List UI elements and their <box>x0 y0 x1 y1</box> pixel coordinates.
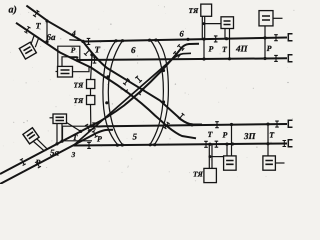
node L2 x232 <box>231 142 234 145</box>
node L1 x231 <box>230 123 233 126</box>
wire B2 right to DAl <box>73 67 90 72</box>
wire B2 left stub <box>56 71 58 73</box>
node DAu wire <box>90 53 93 56</box>
node L1/R5u switch <box>89 124 92 127</box>
svg-text:Р: Р <box>223 131 228 140</box>
wire B10 to B11 <box>212 156 224 158</box>
crossover rail UBu from L1 junction up to blade near U1 <box>91 44 199 126</box>
wire x204 U1 to U2 <box>203 39 205 59</box>
joint on rail D1 <box>33 10 39 17</box>
svg-text:5: 5 <box>133 132 138 142</box>
rail D2 lower rail of track 6a, continues as crossover rail DAl to lower track <box>16 23 196 139</box>
rail U2 end bracket <box>288 55 292 62</box>
svg-text:3П: 3П <box>243 131 257 141</box>
node curve merge TL <box>106 75 109 78</box>
svg-text:5а: 5а <box>50 148 60 158</box>
svg-text:3: 3 <box>71 150 76 159</box>
joint on DAl at L1 frog <box>163 122 169 129</box>
rail D1 upper rail of track 6a <box>26 6 83 42</box>
svg-text:6а: 6а <box>47 32 57 42</box>
wires B6 to rails <box>225 29 230 59</box>
joint near crossing NW <box>123 78 130 85</box>
joint on rail R5u <box>20 159 26 166</box>
joint on L1 left <box>92 123 96 129</box>
svg-text:Р: Р <box>71 46 76 55</box>
node L2 curve1 <box>116 144 119 147</box>
transformer box B2 <box>58 66 73 77</box>
node U1 curve2 <box>121 39 124 42</box>
choke box B5 (TYa top) <box>201 4 212 16</box>
node U1 curve3 <box>148 39 151 42</box>
joint on rail R5l <box>35 161 41 168</box>
wires B3/B4 chain <box>91 55 93 125</box>
insulated joint ticks <box>20 10 286 168</box>
node wire joint bottom <box>209 155 212 158</box>
svg-text:4: 4 <box>71 29 76 38</box>
svg-text:ТЯ: ТЯ <box>193 170 204 179</box>
joint on UBu near blade <box>177 44 184 51</box>
joint on U1 mid <box>214 36 218 42</box>
wires B8 to R5u <box>34 139 48 151</box>
svg-text:Т: Т <box>95 45 101 55</box>
joint on L2 mid <box>204 141 208 147</box>
node U1 curve4 <box>154 39 157 42</box>
joint on UBl near U2 <box>173 51 180 58</box>
rail U2 bottom rail of upper track <box>77 58 287 60</box>
svg-text:Р: Р <box>36 158 41 167</box>
joint near crossing NE <box>135 76 142 83</box>
node L2 x268 <box>266 142 269 145</box>
joint on U2 right <box>274 55 278 61</box>
wire loop outer (P) <box>58 46 80 66</box>
node U1 x188 <box>186 38 189 41</box>
joint on L2 right <box>283 141 287 147</box>
rail L1 end bracket <box>288 120 292 127</box>
node L1 x268 <box>266 123 269 126</box>
wire B12 right stub <box>275 162 284 164</box>
svg-text:Р: Р <box>209 45 214 54</box>
node L1 x192 <box>190 123 193 126</box>
joint on U2 left <box>93 57 97 63</box>
rail L1 top rail of lower track <box>91 124 287 126</box>
node L2 x227 <box>225 143 228 146</box>
node L2 curve3 <box>149 143 152 146</box>
closure curve right inner <box>155 39 169 145</box>
rail U1 top rail of upper track <box>83 38 287 42</box>
switch blade above U2 left end <box>70 56 79 58</box>
node U1 x226 <box>225 37 228 40</box>
equipment boxes and wires <box>19 4 284 182</box>
node curve merge BL <box>105 101 108 104</box>
node L2 curve2 <box>121 143 124 146</box>
rail R5u upper rail of track 5a, continues into L1 <box>0 126 91 174</box>
rail R5l lower rail of track 5a, ends with bent blade under L1 <box>0 130 113 184</box>
wire B7 right stub <box>273 17 283 19</box>
svg-text:ТЯ: ТЯ <box>74 96 85 105</box>
joint on U1 near switch <box>87 38 91 44</box>
joint on DAu lower <box>178 113 185 120</box>
joint on rail D2 <box>24 26 30 33</box>
node U1 x265 <box>263 36 266 39</box>
wire loop around T label <box>63 126 93 141</box>
crossover rail DAu from U1 junction down to L1 <box>83 42 202 125</box>
choke box B3 (TYa) <box>87 80 95 89</box>
transformer box B8 (5a feed) <box>23 128 39 144</box>
svg-text:ТЯ: ТЯ <box>189 6 200 15</box>
node R5u wire1 <box>55 142 58 145</box>
closure curve right outer (U1 to L2) <box>150 39 164 145</box>
switch blade above U1 left end <box>69 39 80 42</box>
svg-text:а): а) <box>9 5 17 16</box>
joint on L1 right <box>275 121 279 127</box>
wire B7 to rails <box>264 26 266 59</box>
joint on crossover DAu upper <box>84 49 91 56</box>
node R5u wire3 <box>79 130 82 133</box>
joint near crossing SW <box>125 90 132 97</box>
node D1 connector <box>45 19 48 22</box>
node curve merge TR <box>162 69 165 72</box>
wire B12 to rails <box>267 124 269 156</box>
transformer box B6 <box>221 17 234 29</box>
node U1 curve1 <box>114 39 117 42</box>
joint on L2 left <box>87 142 91 148</box>
joint on R5l before blade <box>92 131 98 138</box>
joint on R5u near L1 <box>85 124 91 131</box>
wires B11 to rails <box>227 125 232 156</box>
wire connector D1-D2 <box>46 21 48 42</box>
svg-text:ТЯ: ТЯ <box>74 81 85 90</box>
label a) <box>9 5 17 16</box>
crossover rail UBl from L2 frog up crossing U2, blade above U2 <box>74 53 192 145</box>
node D2 connector <box>45 40 48 43</box>
rail L2 bottom rail of lower track <box>74 144 288 146</box>
joint on L1 mid <box>215 122 219 128</box>
wires B9 to R5u <box>57 124 62 144</box>
choke box B10 (TYa bottom) <box>204 168 217 182</box>
node L2 curve4 <box>153 143 156 146</box>
node U2 frog <box>76 59 79 62</box>
node U1 x204 <box>202 38 205 41</box>
joint on U1 right <box>274 35 278 41</box>
node U2 x229 <box>228 57 231 60</box>
svg-text:Р: Р <box>267 44 272 53</box>
wires B5 to U1 <box>202 16 204 39</box>
node U2 x265 <box>263 57 266 60</box>
transformer box B12 <box>263 156 276 170</box>
wire loop inner <box>62 57 77 67</box>
svg-text:4П: 4П <box>235 44 249 54</box>
node R5u wire2 <box>60 140 63 143</box>
joint near crossing SE <box>138 88 145 95</box>
node wire joint top <box>203 22 206 25</box>
node U1/D1 switch <box>81 40 84 43</box>
rail L2 end bracket <box>288 140 292 147</box>
wire B9 left stub <box>50 117 54 119</box>
wires B10 to L2 <box>209 144 212 168</box>
wire B5 to B6 <box>205 23 221 25</box>
transformer box B7 <box>259 11 273 26</box>
closure curve left outer (U1 to L2) <box>103 41 118 145</box>
joint on L2 x216 <box>215 141 219 147</box>
node U2 x204 <box>202 57 205 60</box>
choke box B4 (TYa) <box>87 96 95 105</box>
transformer box B9 <box>53 114 67 124</box>
closure curve left inner <box>108 41 122 145</box>
node L2 x210 <box>208 143 211 146</box>
wire B9 corner to R5u <box>67 123 81 132</box>
svg-text:Р: Р <box>97 135 102 144</box>
rail U1 end bracket <box>288 34 292 41</box>
transformer box B1 (6a feed) <box>19 42 36 59</box>
svg-text:6: 6 <box>131 45 136 55</box>
transformer box B11 <box>224 156 237 170</box>
node curve merge BR <box>162 100 165 103</box>
wires B1 to D2 <box>31 35 39 47</box>
